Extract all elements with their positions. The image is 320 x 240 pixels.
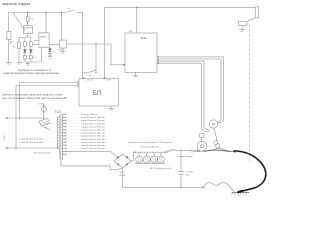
svg-text:отвод 26 витков 16кв мм: отвод 26 витков 16кв мм [81, 123, 105, 125]
svg-text:40 витков 16кв мм: 40 витков 16кв мм [141, 146, 159, 148]
svg-text:тк1: тк1 [68, 8, 71, 10]
svg-text:+12 volt: +12 volt [86, 78, 94, 81]
svg-text:+48V: +48V [106, 79, 111, 81]
svg-text:1н: 1н [53, 51, 55, 53]
svg-text:скорость подачи: скорость подачи [2, 2, 30, 6]
svg-text:подбирается в зависимости от: подбирается в зависимости от [18, 70, 52, 72]
svg-text:тк2: тк2 [89, 75, 92, 77]
svg-text:Дроссель легко и трансформатор: Дроссель легко и трансформатор Т1 (Р) ав… [129, 141, 173, 144]
svg-text:240 витков d 2мм: 240 витков d 2мм [34, 153, 51, 155]
svg-text:БП: БП [93, 90, 102, 97]
svg-text:СА-СВ 1000работа б5а: СА-СВ 1000работа б5а [150, 167, 172, 170]
svg-text:32 витка 16кв мм: 32 витка 16кв мм [81, 114, 98, 116]
svg-text:4Т 000,0: 4Т 000,0 [186, 172, 195, 174]
svg-text:отвод 12 витков 16кв мм: отвод 12 витков 16кв мм [81, 145, 105, 147]
svg-text:9542: 9542 [141, 36, 148, 40]
svg-text:отвод 10 витков 16кв мм: отвод 10 витков 16кв мм [81, 148, 105, 150]
svg-text:отвод 18 витков 16кв мм: отвод 18 витков 16кв мм [81, 136, 105, 138]
svg-text:2к2: 2к2 [33, 57, 36, 59]
svg-text:М: М [212, 123, 215, 127]
svg-text:отвод 24 витков 16кв мм: отвод 24 витков 16кв мм [81, 126, 105, 128]
svg-text:отвод 180 витков d 2мм: отвод 180 витков d 2мм [20, 138, 43, 140]
svg-text:отвод 14 витков 16кв мм: отвод 14 витков 16кв мм [81, 142, 105, 144]
svg-text:отвод 20 витков 16кв мм: отвод 20 витков 16кв мм [81, 133, 105, 135]
svg-text:NE555: NE555 [40, 36, 47, 38]
svg-text:отвод 200 витков d 2мм: отвод 200 витков d 2мм [20, 142, 43, 144]
svg-text:Т1/2: Т1/2 [55, 110, 62, 114]
svg-text:диаметра ведущей системы подаю: диаметра ведущей системы подающего механ… [3, 72, 59, 75]
svg-text:реле тип на товарах, обмотка 2: реле тип на товарах, обмотка 240, авв ти… [2, 97, 67, 100]
svg-text:Убедитесь и пак: Убедитесь и пак [177, 156, 193, 158]
svg-text:отвод 16 витков 16кв мм: отвод 16 витков 16кв мм [81, 139, 105, 141]
svg-text:отвод 22 витков 16кв мм: отвод 22 витков 16кв мм [81, 130, 105, 132]
svg-text:отвод 28 витков 16кв мм: отвод 28 витков 16кв мм [81, 120, 105, 122]
svg-text:отвод 30 витков 16кв мм: отвод 30 витков 16кв мм [81, 117, 105, 119]
svg-text:4к7: 4к7 [13, 46, 16, 48]
svg-text:63в: 63в [186, 174, 189, 176]
svg-text:10к: 10к [30, 18, 33, 20]
